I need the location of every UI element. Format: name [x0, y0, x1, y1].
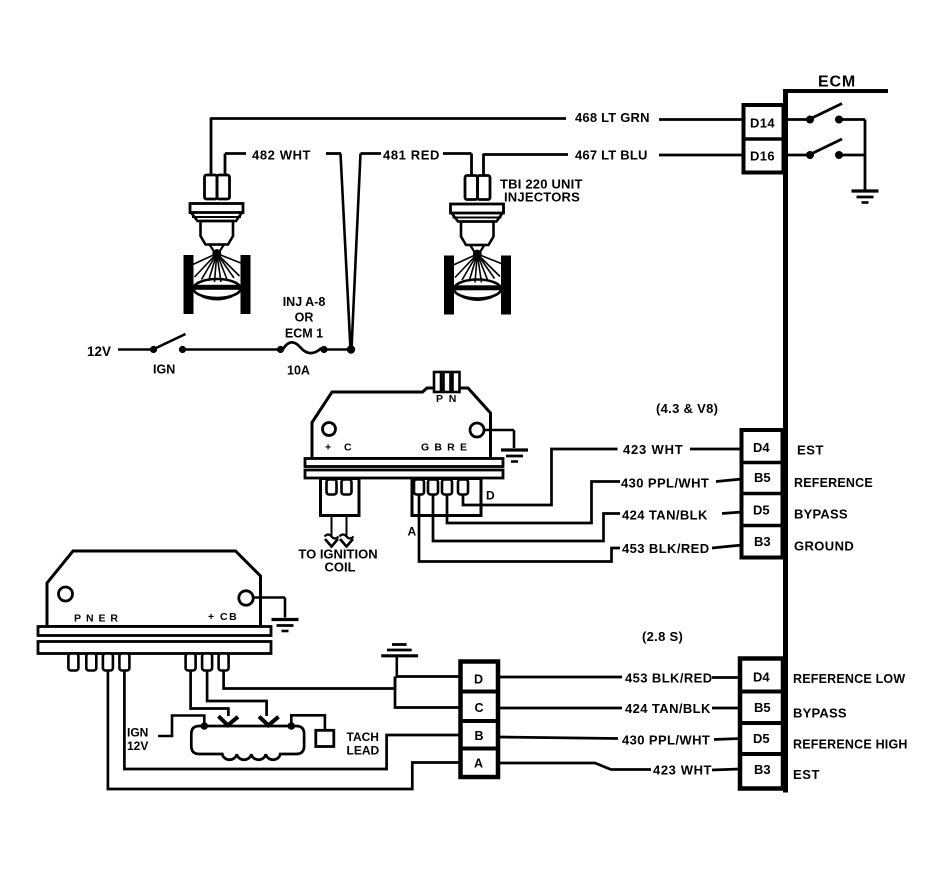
- svg-text:BYPASS: BYPASS: [793, 706, 847, 721]
- wire module U1 case ground: [484, 430, 514, 448]
- svg-text:IGN: IGN: [127, 726, 148, 740]
- svg-text:482 WHT: 482 WHT: [252, 148, 311, 163]
- ECM connector column (2.8) frame: [740, 659, 783, 789]
- wire pin 4 to B: [124, 671, 460, 769]
- module U1 mounting rail lower: [305, 470, 503, 478]
- svg-text:REFERENCE HIGH: REFERENCE HIGH: [793, 738, 908, 752]
- svg-text:A: A: [474, 757, 483, 771]
- transistor Q1 arrow: [259, 717, 279, 726]
- svg-text:BYPASS: BYPASS: [794, 507, 848, 522]
- svg-text:B3: B3: [754, 534, 771, 549]
- transistor Q1 feed (pin 6): [207, 671, 267, 716]
- lead 453 to D4 (2.8): [712, 676, 740, 679]
- injector 2: [444, 176, 511, 315]
- svg-text:430 PPL/WHT: 430 PPL/WHT: [622, 733, 710, 748]
- label INJ A-8 OR ECM 1: [283, 295, 326, 341]
- svg-text:453 BLK/RED: 453 BLK/RED: [625, 671, 712, 686]
- module U1 coil connector pins: [327, 480, 352, 495]
- svg-text:D14: D14: [750, 116, 775, 131]
- wire tach lead: [291, 715, 325, 729]
- svg-text:D: D: [474, 673, 483, 687]
- node base right: [288, 722, 296, 730]
- svg-text:EST: EST: [797, 443, 824, 458]
- module U2 case ground symbol: [272, 620, 299, 632]
- label TACH LEAD: [347, 730, 380, 758]
- ignition module U2 (2.8) body: [47, 551, 261, 627]
- svg-text:D4: D4: [753, 670, 770, 685]
- svg-text:P N: P N: [436, 393, 458, 405]
- wire B to 430 label: [498, 737, 618, 739]
- wire C to 424 label: [498, 707, 622, 710]
- svg-text:LEAD: LEAD: [347, 744, 380, 758]
- node junction (injector feed split): [347, 345, 355, 353]
- module U1 distributor connector pins: [414, 480, 468, 495]
- module U2 mounting rail upper: [38, 627, 271, 636]
- wire pin D lead: [396, 675, 461, 678]
- lead 424 to B5 (2.8): [712, 707, 740, 710]
- module U1 case ground symbol: [501, 450, 528, 462]
- svg-text:C: C: [475, 701, 484, 715]
- ECM connector column (4.3) frame: [742, 430, 783, 558]
- svg-text:GROUND: GROUND: [794, 539, 854, 554]
- svg-text:ECM: ECM: [818, 74, 856, 91]
- svg-text:B5: B5: [754, 700, 771, 715]
- svg-text:10A: 10A: [287, 364, 310, 378]
- svg-text:+ CB: + CB: [208, 611, 238, 623]
- lead 453 to B3: [712, 545, 742, 548]
- svg-text:REFERENCE: REFERENCE: [794, 476, 873, 490]
- module U2 left mounting hole: [59, 587, 73, 601]
- wire 468 LT GRN: [211, 118, 744, 176]
- fuse 10A: [277, 342, 328, 353]
- module U2 pins: [68, 654, 228, 671]
- ECM injector connector frame (D14/D16): [744, 105, 784, 173]
- wire V-right (481 RED down to fuse node): [352, 154, 361, 350]
- module U1 distributor connector shell: [412, 479, 481, 516]
- transistor Q2 feed (pin 5): [191, 671, 229, 716]
- wire IGN 12V lead: [158, 716, 204, 737]
- svg-text:B3: B3: [754, 762, 771, 777]
- wire module U2 case ground: [253, 598, 285, 618]
- wire D to 453 label: [498, 676, 622, 679]
- wire 12V feed: [118, 348, 151, 351]
- module U1 mounting rail upper: [305, 459, 503, 467]
- wire node down to pin C lead: [395, 677, 461, 708]
- svg-text:IGN: IGN: [153, 363, 175, 377]
- wire fuse to node: [326, 348, 348, 351]
- injector 1: [184, 175, 251, 314]
- module U2 right mounting hole: [239, 591, 253, 605]
- module U1 right mounting hole: [470, 423, 484, 437]
- lead 424 to D5: [722, 512, 742, 514]
- svg-text:ECM 1: ECM 1: [285, 327, 323, 341]
- wire 467 LT BLU: [484, 154, 744, 176]
- wire 482 WHT (injector 1 feed): [225, 154, 341, 176]
- svg-text:424 TAN/BLK: 424 TAN/BLK: [622, 508, 708, 523]
- ECM main vertical line: [783, 89, 788, 793]
- module U2 mounting rail lower: [38, 642, 271, 654]
- lead 423 WHT to D4: [690, 448, 742, 451]
- wire 423 WHT (4.3): [463, 449, 618, 505]
- svg-text:(2.8 S): (2.8 S): [642, 629, 683, 644]
- svg-text:EST: EST: [793, 767, 820, 782]
- switch IGN: [150, 334, 186, 353]
- node base left: [201, 722, 209, 730]
- label TO IGNITION COIL: [298, 547, 377, 575]
- svg-text:D: D: [486, 489, 495, 503]
- module U1 left mounting hole: [323, 423, 336, 436]
- svg-text:B: B: [475, 729, 484, 743]
- module U1 top pins P N: [434, 372, 460, 392]
- svg-text:D16: D16: [750, 149, 775, 164]
- ignition module U1 (4.3 & V8) body: [312, 388, 491, 459]
- svg-text:OR: OR: [295, 311, 314, 325]
- svg-text:INJECTORS: INJECTORS: [504, 190, 580, 205]
- wire V-left (482 WHT down to fuse node): [341, 154, 351, 350]
- svg-text:+ C: + C: [325, 442, 357, 454]
- svg-text:424 TAN/BLK: 424 TAN/BLK: [625, 701, 711, 716]
- svg-text:423 WHT: 423 WHT: [623, 442, 684, 457]
- wire pin 7 to node: [224, 671, 395, 689]
- svg-text:(4.3 & V8): (4.3 & V8): [656, 401, 718, 416]
- label IGN 12V: [127, 726, 148, 754]
- distributor ground (inverted): [381, 645, 418, 656]
- driver ground: [852, 191, 879, 203]
- svg-text:D5: D5: [753, 731, 770, 746]
- svg-text:467 LT BLU: 467 LT BLU: [575, 148, 648, 163]
- tach lead terminal square: [316, 730, 334, 746]
- module U1 coil connector shell: [321, 479, 360, 516]
- wire 481 RED: [361, 154, 472, 176]
- wire pin 3 to A: [108, 671, 461, 789]
- svg-text:D4: D4: [753, 440, 770, 455]
- wire 424 TAN/BLK (4.3): [433, 494, 620, 541]
- svg-text:B5: B5: [754, 470, 771, 485]
- wires to ignition coil: [325, 516, 354, 547]
- distributor connector column D C B A: [461, 662, 499, 778]
- svg-text:430 PPL/WHT: 430 PPL/WHT: [621, 476, 709, 491]
- svg-text:12V: 12V: [87, 344, 111, 359]
- internal loop with inductor: [191, 726, 304, 760]
- svg-text:12V: 12V: [127, 739, 148, 753]
- svg-text:TACH: TACH: [347, 730, 379, 744]
- ECM top border: [783, 89, 888, 93]
- svg-text:423 WHT: 423 WHT: [653, 763, 712, 778]
- transistor Q2 arrow: [219, 716, 239, 725]
- wire distributor ground stem: [395, 656, 398, 676]
- svg-text:A: A: [408, 525, 417, 539]
- lead 423 to B3 (2.8): [712, 769, 740, 770]
- wire A to 423 label: [498, 763, 651, 770]
- svg-text:REFERENCE LOW: REFERENCE LOW: [793, 672, 905, 686]
- wire to driver ground: [864, 120, 867, 191]
- switch S1 (injector driver D14): [788, 104, 865, 124]
- svg-text:481 RED: 481 RED: [383, 148, 440, 163]
- lead 430 to B5: [716, 479, 742, 482]
- wire IGN to fuse: [185, 348, 278, 351]
- lead 430 to D5 (2.8): [714, 739, 740, 740]
- svg-text:COIL: COIL: [324, 560, 355, 575]
- switch S2 (injector driver D16): [788, 139, 865, 159]
- svg-text:468 LT GRN: 468 LT GRN: [575, 110, 650, 125]
- svg-text:INJ A-8: INJ A-8: [283, 295, 326, 309]
- wire 430 PPL/WHT (4.3): [447, 482, 620, 524]
- svg-text:D5: D5: [753, 503, 770, 518]
- wire 453 BLK/RED (4.3): [419, 494, 620, 562]
- svg-text:453 BLK/RED: 453 BLK/RED: [622, 541, 709, 556]
